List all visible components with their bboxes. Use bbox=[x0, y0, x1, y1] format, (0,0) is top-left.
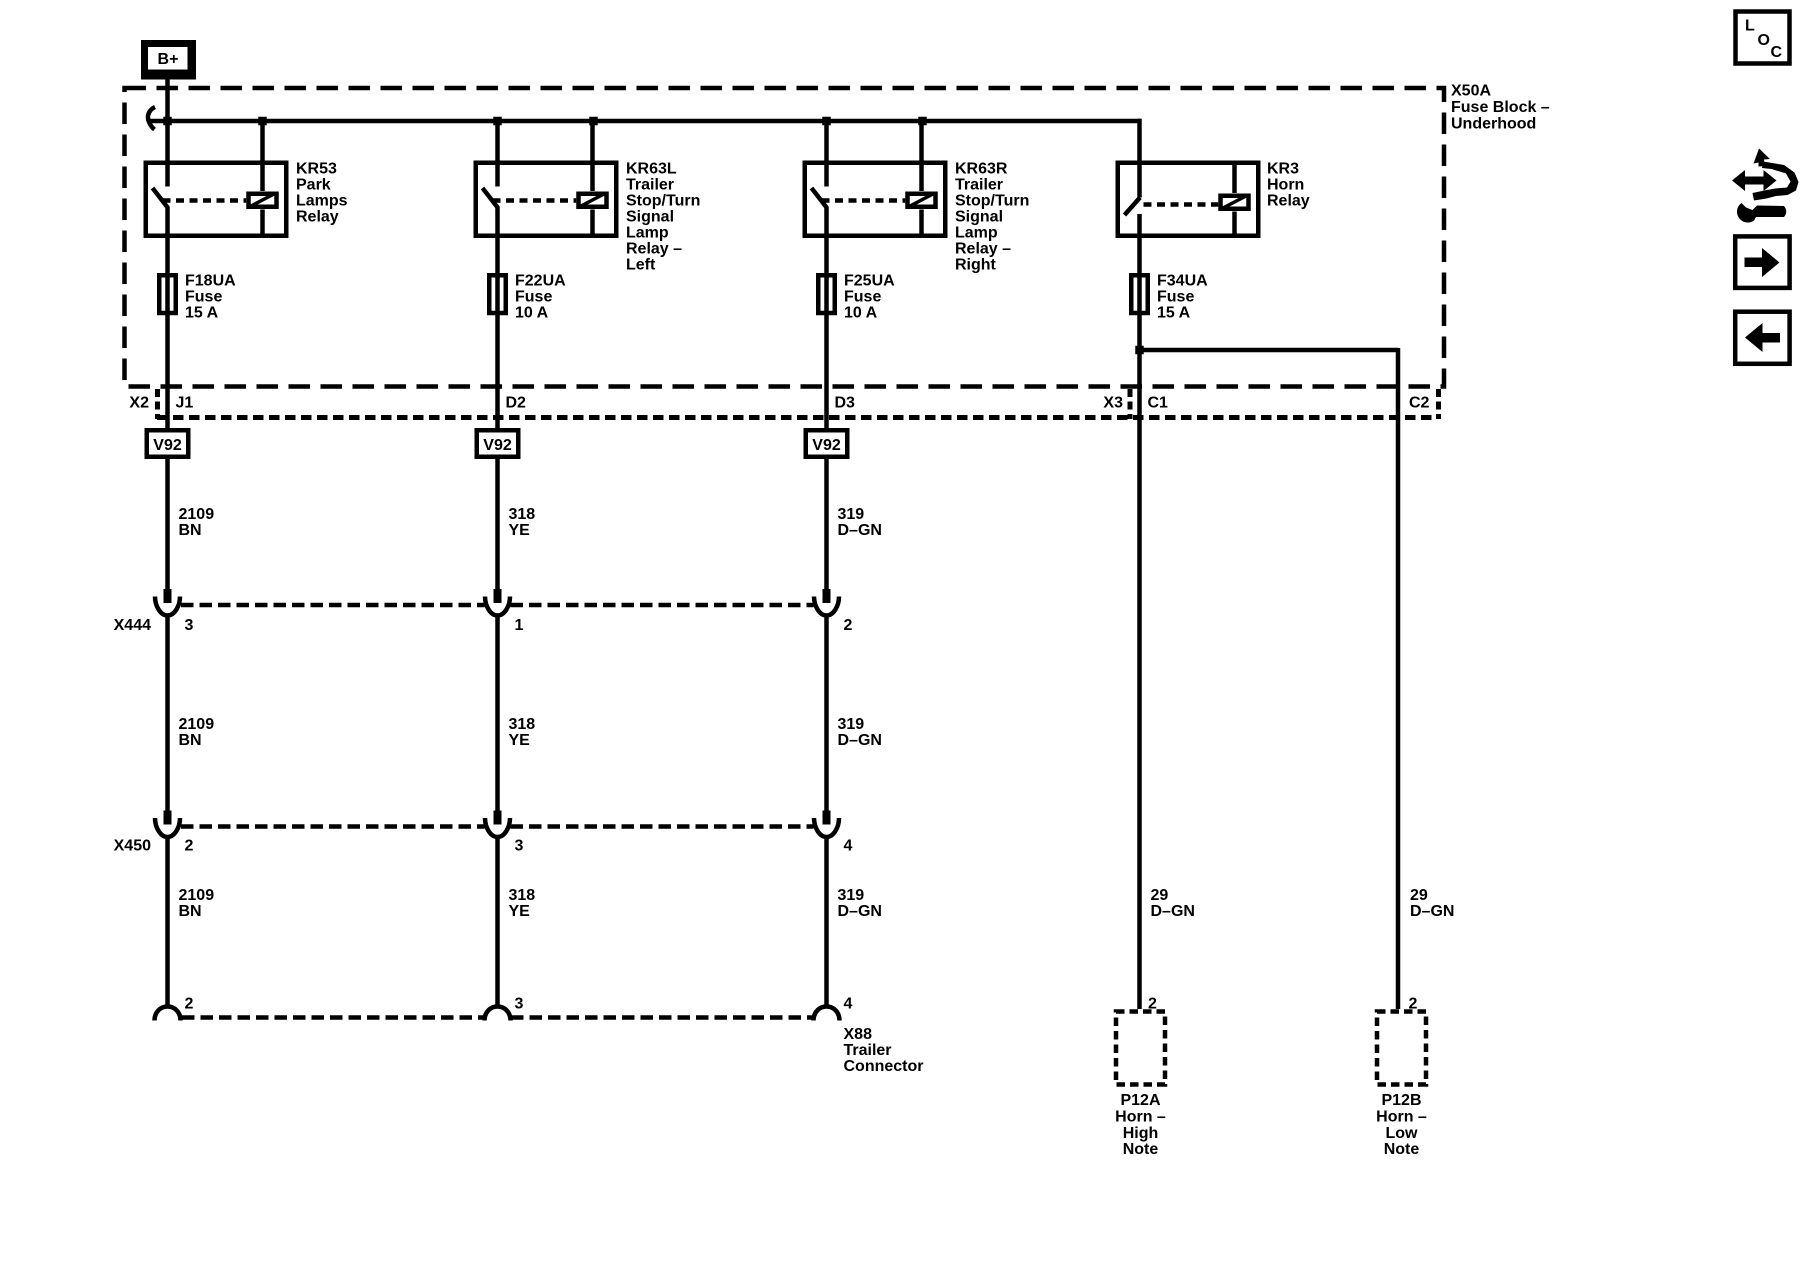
label circuit 319 D–GN bbox=[838, 716, 882, 749]
svg-text:YE: YE bbox=[509, 732, 531, 749]
svg-text:Signal: Signal bbox=[955, 209, 1003, 226]
bus wire from B+ feed to relays bbox=[149, 119, 1142, 124]
svg-text:Right: Right bbox=[955, 257, 997, 274]
wire 2109 BN segment X444 to X450 bbox=[165, 616, 170, 811]
wire 2109 BN segment X450 to X88 bbox=[165, 837, 170, 1007]
relay KR63L coil bbox=[579, 194, 607, 207]
svg-text:Relay –: Relay – bbox=[955, 241, 1011, 258]
connector X444 terminal 1 bbox=[485, 589, 510, 616]
svg-text:Horn –: Horn – bbox=[1115, 1108, 1166, 1125]
arrow back icon bbox=[1735, 312, 1789, 364]
relay KR3 actuator dashed link bbox=[1144, 202, 1219, 207]
relay KR53 actuator dashed link bbox=[163, 198, 247, 203]
svg-text:YE: YE bbox=[509, 522, 531, 539]
relay KR53 coil feed wire bbox=[260, 121, 265, 191]
wire 319 D–GN segment V92 to X444 bbox=[824, 459, 829, 589]
svg-text:O: O bbox=[1758, 32, 1770, 49]
svg-text:Fuse Block –: Fuse Block – bbox=[1451, 99, 1550, 116]
connector X88 row bbox=[182, 1015, 484, 1020]
junction bus / KR53 coil bbox=[258, 117, 267, 126]
fuse F25UA bbox=[818, 273, 835, 316]
svg-text:3: 3 bbox=[185, 617, 194, 634]
junction bus / KR63R switch bbox=[822, 117, 831, 126]
relay KR53 switch blade bbox=[153, 188, 169, 208]
svg-text:319: 319 bbox=[838, 506, 865, 523]
svg-text:C: C bbox=[1771, 44, 1783, 61]
relay KR63R switch blade bbox=[812, 188, 828, 208]
svg-text:Fuse: Fuse bbox=[1157, 289, 1194, 306]
svg-text:X3: X3 bbox=[1103, 395, 1123, 412]
wire C2 branch down to horn P12B bbox=[1396, 348, 1401, 1009]
svg-text:V92: V92 bbox=[483, 437, 512, 454]
svg-text:X88: X88 bbox=[844, 1026, 873, 1043]
label circuit 319 D–GN bbox=[838, 887, 882, 920]
svg-text:D–GN: D–GN bbox=[838, 522, 882, 539]
svg-text:318: 318 bbox=[509, 506, 536, 523]
wire relay to fuse F18UA bbox=[165, 207, 170, 273]
connector X450 terminal 2 bbox=[155, 811, 180, 838]
svg-text:Note: Note bbox=[1123, 1141, 1159, 1158]
label KR3 Horn Relay bbox=[1267, 161, 1310, 210]
svg-text:2109: 2109 bbox=[179, 716, 215, 733]
svg-text:Trailer: Trailer bbox=[955, 177, 1003, 194]
svg-text:Relay –: Relay – bbox=[626, 241, 682, 258]
svg-text:319: 319 bbox=[838, 887, 865, 904]
relay KR63R box bbox=[805, 163, 946, 236]
svg-text:Fuse: Fuse bbox=[515, 289, 552, 306]
svg-text:Low: Low bbox=[1386, 1125, 1419, 1142]
svg-text:F25UA: F25UA bbox=[844, 273, 895, 290]
wire B+ to relay KR53 switch bbox=[165, 79, 170, 187]
label circuit 29 D-GN (C1) bbox=[1151, 887, 1195, 920]
label KR53 Park Lamps Relay bbox=[296, 161, 348, 226]
svg-text:2109: 2109 bbox=[179, 506, 215, 523]
splice V92 bbox=[477, 430, 519, 457]
label F25UA bbox=[844, 273, 895, 322]
label circuit 318 YE bbox=[509, 716, 536, 749]
svg-text:V92: V92 bbox=[812, 437, 841, 454]
fuse F18UA bbox=[159, 273, 176, 316]
connector X444 terminal 2 bbox=[814, 589, 839, 616]
svg-text:V92: V92 bbox=[153, 437, 182, 454]
label circuit 319 D–GN bbox=[838, 506, 882, 539]
svg-text:X450: X450 bbox=[114, 838, 151, 855]
splice V92 bbox=[147, 430, 189, 457]
connector boundary dotted line bbox=[157, 415, 1434, 420]
connector X444 terminal 3 bbox=[155, 589, 180, 616]
relay KR53 coil bbox=[249, 194, 277, 207]
svg-text:2: 2 bbox=[185, 838, 194, 855]
junction bus / KR63R coil bbox=[918, 117, 927, 126]
diagnostic navigation icon bbox=[1732, 149, 1799, 223]
svg-text:D2: D2 bbox=[506, 395, 527, 412]
connector X450 terminal 4 bbox=[814, 811, 839, 838]
svg-text:Connector: Connector bbox=[844, 1058, 924, 1075]
horn P12B dashed box bbox=[1377, 1012, 1426, 1085]
wire fuse to splice V92 via terminal D2 bbox=[495, 316, 500, 429]
svg-text:Relay: Relay bbox=[296, 209, 339, 226]
junction bus / KR63L coil bbox=[589, 117, 598, 126]
svg-text:29: 29 bbox=[1151, 887, 1169, 904]
connector X450 terminal 3 bbox=[485, 811, 510, 838]
label KR63R Trailer Stop/Turn Signal Lamp Relay - Right bbox=[955, 161, 1029, 274]
connector C2 divider bbox=[1436, 389, 1441, 419]
relay KR63R actuator dashed link bbox=[822, 198, 906, 203]
svg-text:Trailer: Trailer bbox=[626, 177, 674, 194]
svg-text:2109: 2109 bbox=[179, 887, 215, 904]
wire 318 YE segment X444 to X450 bbox=[495, 616, 500, 811]
svg-text:P12B: P12B bbox=[1381, 1092, 1421, 1109]
svg-text:BN: BN bbox=[179, 732, 202, 749]
label circuit 318 YE bbox=[509, 887, 536, 920]
relay KR63L switch blade bbox=[483, 188, 499, 208]
svg-text:X444: X444 bbox=[114, 617, 151, 634]
label connector X88 Trailer Connector bbox=[844, 1026, 924, 1075]
svg-text:YE: YE bbox=[509, 903, 531, 920]
svg-text:High: High bbox=[1123, 1125, 1159, 1142]
svg-text:D3: D3 bbox=[835, 395, 856, 412]
svg-text:Lamp: Lamp bbox=[955, 225, 998, 242]
svg-text:Note: Note bbox=[1384, 1141, 1420, 1158]
splice V92 bbox=[806, 430, 848, 457]
connector X450 dashed line bbox=[181, 824, 485, 829]
label F34UA bbox=[1157, 273, 1208, 322]
label circuit 29 D-GN (C2) bbox=[1410, 887, 1454, 920]
branch wire to C2 bbox=[1140, 348, 1399, 353]
svg-text:Horn: Horn bbox=[1267, 177, 1304, 194]
svg-text:Stop/Turn: Stop/Turn bbox=[626, 193, 700, 210]
fuse F34UA bbox=[1131, 273, 1148, 316]
label F22UA bbox=[515, 273, 566, 322]
svg-text:KR3: KR3 bbox=[1267, 161, 1299, 178]
relay KR3 coil feed wire bbox=[1232, 161, 1237, 194]
svg-text:BN: BN bbox=[179, 903, 202, 920]
relay KR63L box bbox=[476, 163, 617, 236]
svg-text:D–GN: D–GN bbox=[838, 903, 882, 920]
svg-text:Relay: Relay bbox=[1267, 193, 1310, 210]
svg-text:4: 4 bbox=[844, 996, 853, 1013]
svg-text:B+: B+ bbox=[158, 51, 179, 68]
svg-text:Lamp: Lamp bbox=[626, 225, 669, 242]
connector X88 terminal 4 bbox=[814, 1007, 840, 1021]
wire 318 YE segment X450 to X88 bbox=[495, 837, 500, 1007]
label circuit 2109 BN bbox=[179, 506, 215, 539]
svg-text:F34UA: F34UA bbox=[1157, 273, 1208, 290]
svg-text:Trailer: Trailer bbox=[844, 1042, 892, 1059]
fuse block X50A dashed outline bbox=[125, 88, 1445, 387]
wire 319 D–GN segment X450 to X88 bbox=[824, 837, 829, 1007]
label circuit 318 YE bbox=[509, 506, 536, 539]
svg-text:Fuse: Fuse bbox=[185, 289, 222, 306]
svg-text:P12A: P12A bbox=[1120, 1092, 1160, 1109]
wire relay to fuse F34UA bbox=[1137, 214, 1142, 273]
label F18UA bbox=[185, 273, 236, 322]
relay KR63R coil feed wire bbox=[919, 121, 924, 191]
relay KR63R coil bbox=[908, 194, 936, 207]
label P12B Horn - Low Note bbox=[1376, 1092, 1427, 1158]
svg-text:Lamps: Lamps bbox=[296, 193, 348, 210]
svg-text:Underhood: Underhood bbox=[1451, 116, 1536, 133]
svg-text:Park: Park bbox=[296, 177, 331, 194]
label P12A Horn - High Note bbox=[1115, 1092, 1166, 1158]
relay KR63L coil feed wire bbox=[590, 121, 595, 191]
wire 318 YE segment V92 to X444 bbox=[495, 459, 500, 589]
svg-text:C1: C1 bbox=[1148, 395, 1169, 412]
connector X444 dashed line bbox=[181, 603, 485, 608]
relay KR3 box bbox=[1118, 163, 1259, 236]
svg-text:29: 29 bbox=[1410, 887, 1428, 904]
wire fuse to splice V92 via terminal J1 bbox=[165, 316, 170, 429]
wire KR63R switch feed bbox=[824, 121, 829, 187]
relay KR63L actuator dashed link bbox=[493, 198, 577, 203]
wire F34UA to horn P12A via terminal C1 bbox=[1137, 316, 1142, 1010]
relay KR53 box bbox=[146, 163, 287, 236]
svg-text:Stop/Turn: Stop/Turn bbox=[955, 193, 1029, 210]
connector X88 terminal 2 bbox=[155, 1007, 181, 1021]
junction bus / B+ wire bbox=[163, 117, 172, 126]
connector X3 divider bbox=[1128, 389, 1133, 419]
wire bus corner down to KR3 switch bbox=[1137, 119, 1142, 198]
wire relay to fuse F25UA bbox=[824, 207, 829, 273]
wire 2109 BN segment V92 to X444 bbox=[165, 459, 170, 589]
svg-text:10 A: 10 A bbox=[515, 305, 549, 322]
svg-text:BN: BN bbox=[179, 522, 202, 539]
label circuit 2109 BN bbox=[179, 716, 215, 749]
svg-text:C2: C2 bbox=[1409, 395, 1430, 412]
svg-text:KR63L: KR63L bbox=[626, 161, 677, 178]
battery positive cable curl bbox=[148, 107, 155, 130]
wire 319 D–GN segment X444 to X450 bbox=[824, 616, 829, 811]
loc reference icon bbox=[1736, 12, 1790, 64]
svg-text:X2: X2 bbox=[129, 395, 149, 412]
svg-text:15 A: 15 A bbox=[185, 305, 219, 322]
label KR63L Trailer Stop/Turn Signal Lamp Relay - Left bbox=[626, 161, 700, 274]
svg-text:Horn –: Horn – bbox=[1376, 1108, 1427, 1125]
relay KR3 coil bbox=[1221, 196, 1249, 209]
svg-text:D–GN: D–GN bbox=[1151, 903, 1195, 920]
label X50A Fuse Block - Underhood bbox=[1451, 83, 1550, 133]
svg-text:10 A: 10 A bbox=[844, 305, 878, 322]
svg-text:J1: J1 bbox=[176, 395, 194, 412]
wire KR63L switch feed bbox=[495, 121, 500, 187]
svg-text:X50A: X50A bbox=[1451, 83, 1491, 100]
svg-text:4: 4 bbox=[844, 838, 853, 855]
svg-text:3: 3 bbox=[515, 838, 524, 855]
arrow next icon bbox=[1735, 236, 1789, 288]
svg-text:1: 1 bbox=[515, 617, 524, 634]
svg-text:318: 318 bbox=[509, 716, 536, 733]
wire fuse to splice V92 via terminal D3 bbox=[824, 316, 829, 429]
svg-text:318: 318 bbox=[509, 887, 536, 904]
svg-text:L: L bbox=[1745, 18, 1755, 35]
svg-text:D–GN: D–GN bbox=[1410, 903, 1454, 920]
svg-text:Signal: Signal bbox=[626, 209, 674, 226]
junction C1 wire / C2 branch bbox=[1135, 346, 1144, 355]
label circuit 2109 BN bbox=[179, 887, 215, 920]
wire relay to fuse F22UA bbox=[495, 207, 500, 273]
svg-text:F18UA: F18UA bbox=[185, 273, 236, 290]
svg-text:Left: Left bbox=[626, 257, 656, 274]
svg-text:F22UA: F22UA bbox=[515, 273, 566, 290]
connector X2 divider bbox=[155, 389, 160, 419]
connector X88 terminal 3 bbox=[485, 1007, 511, 1021]
power feed B+ bbox=[141, 40, 196, 80]
svg-text:15 A: 15 A bbox=[1157, 305, 1191, 322]
svg-text:3: 3 bbox=[515, 996, 524, 1013]
svg-text:2: 2 bbox=[844, 617, 853, 634]
fuse F22UA bbox=[489, 273, 506, 316]
horn P12A dashed box bbox=[1116, 1012, 1165, 1085]
svg-text:KR63R: KR63R bbox=[955, 161, 1008, 178]
svg-text:319: 319 bbox=[838, 716, 865, 733]
svg-text:D–GN: D–GN bbox=[838, 732, 882, 749]
svg-text:Fuse: Fuse bbox=[844, 289, 881, 306]
svg-text:2: 2 bbox=[185, 996, 194, 1013]
relay KR3 switch blade bbox=[1125, 198, 1141, 216]
junction bus / KR63L switch bbox=[493, 117, 502, 126]
svg-text:KR53: KR53 bbox=[296, 161, 337, 178]
